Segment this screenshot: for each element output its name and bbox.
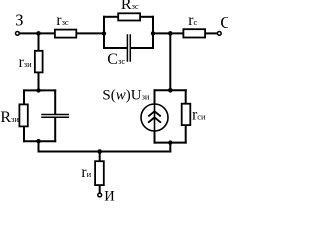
- svg-text:З: З: [15, 11, 23, 30]
- svg-text:С: С: [220, 13, 228, 32]
- svg-text:И: И: [104, 188, 115, 202]
